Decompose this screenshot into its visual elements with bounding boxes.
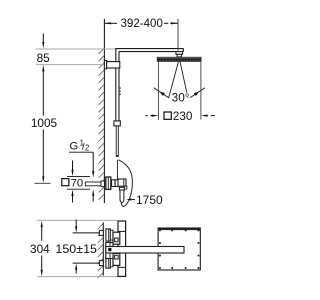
- rod end cap: [116, 155, 119, 157]
- hand shower nut: [119, 187, 124, 190]
- label G 1/2: [69, 139, 93, 153]
- svg-text:2: 2: [85, 144, 89, 153]
- holder ticks on riser: [120, 88, 122, 94]
- extension 304 top (gray): [37, 219, 118, 221]
- spray angle arrow left: [154, 88, 169, 98]
- union upper: [110, 230, 113, 240]
- dimension 85 (vertical, shared line with 1005): [37, 34, 51, 116]
- spray cone lines (30 deg): [169, 62, 188, 98]
- dimension 304: [30, 221, 50, 277]
- label square-70: [62, 178, 83, 190]
- shower arm (horizontal): [115, 49, 183, 52]
- dimension square-230 below head: [145, 62, 215, 123]
- svg-text:30°: 30°: [172, 91, 190, 105]
- dimension 392-400 (top): [105, 16, 179, 51]
- shower arm bar (top view, over square): [106, 247, 184, 254]
- thermostat flange lower: [106, 256, 111, 268]
- leader G1/2 down arrow: [92, 152, 94, 201]
- svg-text:230: 230: [173, 109, 193, 123]
- svg-text:70: 70: [71, 178, 84, 190]
- lower rod of riser: [116, 126, 118, 155]
- diverter valve (side view): [106, 177, 126, 189]
- svg-text:85: 85: [37, 51, 51, 65]
- wall hatching lower: [98, 224, 104, 279]
- overhead shower head (side view): [157, 57, 201, 61]
- svg-text:304: 304: [30, 242, 50, 256]
- hand shower head square (top view): [158, 228, 200, 270]
- wall upper (section line): [103, 19, 105, 203]
- elbow downward piece: [124, 186, 127, 189]
- supply stub upper (behind wall): [99, 230, 103, 235]
- svg-text:1750: 1750: [136, 193, 163, 207]
- extension line 85 bottom / 1005 top (gray, bracket level): [36, 64, 104, 66]
- shower hose loop: [118, 160, 132, 206]
- extension 304 bottom (gray): [37, 276, 126, 278]
- dimension 70 (valve height): [67, 161, 90, 203]
- handle block lower: [113, 253, 120, 265]
- spray angle arrow right: [190, 88, 205, 98]
- thermostat body column (top view): [118, 221, 126, 276]
- union lower: [110, 257, 113, 267]
- rod lower single line: [116, 160, 118, 180]
- svg-text:392-400: 392-400: [121, 16, 164, 30]
- dimension 150+-15: [55, 220, 99, 274]
- wall bracket of riser: [104, 61, 119, 69]
- dimension 1005 (vertical): [31, 116, 58, 184]
- riser union nut: [114, 121, 120, 126]
- svg-text:G: G: [70, 140, 79, 152]
- wall hatching upper: [99, 48, 105, 200]
- supply stub lower (behind wall): [99, 261, 103, 266]
- ball joint between arm and head: [176, 52, 183, 57]
- label 1750 with leader: [126, 193, 163, 207]
- svg-text:1005: 1005: [31, 116, 58, 130]
- extension line 85 top (gray, arm level): [36, 48, 116, 50]
- supply stub behind wall (G1/2 pipe): [85, 181, 104, 187]
- shower pipe (vertical riser): [116, 49, 119, 122]
- handle block upper: [113, 232, 120, 244]
- wall lower (section line): [102, 222, 104, 275]
- hand shower handle: [120, 190, 124, 203]
- svg-text:150±15: 150±15: [55, 242, 97, 256]
- thermostat center block (outlet housing): [106, 243, 113, 259]
- thermostat flange upper: [106, 229, 111, 241]
- diverter knob on bar: [108, 248, 111, 251]
